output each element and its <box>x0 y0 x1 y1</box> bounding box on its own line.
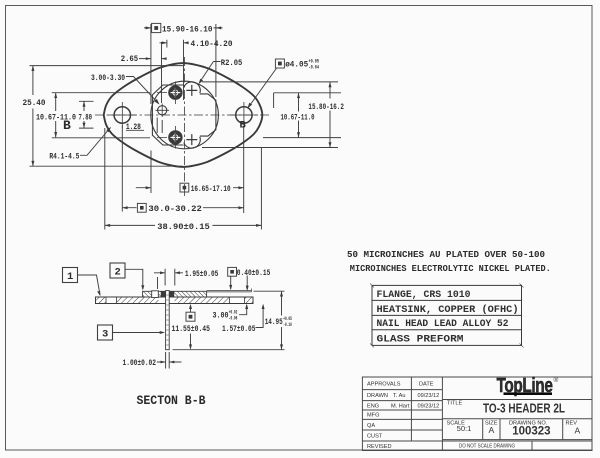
svg-text:SECTON B-B: SECTON B-B <box>137 394 206 408</box>
svg-text:1: 1 <box>67 271 73 283</box>
svg-text:14.95: 14.95 <box>265 317 283 327</box>
svg-text:1.00±0.02: 1.00±0.02 <box>123 358 157 368</box>
dim 0.40 gdt box <box>228 267 237 276</box>
svg-text:09/23/12: 09/23/12 <box>418 403 440 409</box>
svg-text:MFG: MFG <box>367 413 379 419</box>
dim 16.65-17.10 line <box>136 187 244 189</box>
svg-text:7.80: 7.80 <box>79 113 93 123</box>
svg-text:DRAWN: DRAWN <box>367 393 388 399</box>
svg-text:38.90±0.15: 38.90±0.15 <box>157 222 210 232</box>
dim 1.95 line <box>154 272 183 274</box>
dim 11.55 leader up <box>190 305 192 312</box>
dim 10.67-11.0 right ext <box>263 93 341 138</box>
svg-text:-0.10: -0.10 <box>283 321 292 328</box>
dim 16.65-17.10 ext <box>151 126 244 213</box>
svg-text:50:1: 50:1 <box>457 424 472 433</box>
flange glass gap center <box>159 296 175 304</box>
dim 15.90-16.10 gdt box <box>152 23 161 32</box>
flange hole gap right <box>230 296 245 304</box>
svg-text:R4.1-4.5: R4.1-4.5 <box>49 152 79 162</box>
dim 30.0-30.22 gdt box <box>137 203 146 212</box>
pin lower crosshair <box>157 126 175 149</box>
balloon 3 <box>98 325 113 340</box>
svg-text:R2.05: R2.05 <box>221 58 243 68</box>
svg-text:ENG: ENG <box>367 403 379 409</box>
dim 10.67-11.0 left line <box>55 93 57 138</box>
svg-text:100323: 100323 <box>512 426 550 438</box>
svg-text:NAIL HEAD LEAD ALLOY 52: NAIL HEAD LEAD ALLOY 52 <box>377 318 509 330</box>
dim 10.67-11.0 left ext <box>52 93 150 138</box>
dim 2.65 ext/line <box>139 42 167 103</box>
pin lower (filled) <box>168 130 182 144</box>
svg-text:3: 3 <box>102 329 108 341</box>
balloon 1 <box>63 268 78 283</box>
dim 25.40 ext lines <box>30 66 184 167</box>
svg-text:3.00: 3.00 <box>213 311 229 321</box>
horizontal centerline <box>95 114 271 116</box>
dim 30.0-30.22 line <box>122 207 243 209</box>
balloon 2 <box>110 263 125 278</box>
dim 1.28 tickline <box>126 118 162 134</box>
svg-text:09/23/12: 09/23/12 <box>418 393 440 399</box>
svg-text:15.80-16.2: 15.80-16.2 <box>308 102 344 112</box>
dim 11.55 gdt box <box>186 312 195 321</box>
svg-text:TITLE: TITLE <box>447 401 462 407</box>
pin upper (filled) <box>168 85 182 99</box>
dim 14.95 ext lines <box>173 291 285 350</box>
svg-text:1.95±0.05: 1.95±0.05 <box>185 269 219 279</box>
svg-text:3.00-3.30: 3.00-3.30 <box>91 73 125 83</box>
svg-text:ø4.05: ø4.05 <box>285 60 308 70</box>
section texts <box>123 268 283 368</box>
dim 0.40 leader down <box>230 276 232 289</box>
dim 10.67-11.0 right line <box>298 93 300 138</box>
svg-text:25.40: 25.40 <box>23 98 46 108</box>
svg-text:DO NOT SCALE DRAWING: DO NOT SCALE DRAWING <box>459 444 515 450</box>
dim 15.80-16.2 ext <box>202 82 338 148</box>
svg-text:2.65: 2.65 <box>121 54 139 64</box>
dim 11.55 lower arrow <box>190 334 192 349</box>
nail head dark left <box>161 291 166 297</box>
svg-text:30.0-30.22: 30.0-30.22 <box>148 204 202 214</box>
svg-text:B: B <box>63 118 71 133</box>
title block frame <box>362 377 592 451</box>
svg-text:A: A <box>575 426 581 436</box>
svg-text:4.10-4.20: 4.10-4.20 <box>191 39 233 49</box>
heatsink strip hatched <box>143 291 207 297</box>
dim 7.80 line <box>83 101 85 128</box>
right section vertical lines <box>483 419 563 451</box>
mounting hole right crosshair <box>230 102 259 128</box>
leader R4.1-4.5 <box>80 128 110 155</box>
svg-text:-0.04: -0.04 <box>309 64 320 71</box>
left column vertical lines <box>411 377 442 451</box>
dim 16.65-17.10 gdt box <box>180 183 189 192</box>
dim 25.40 line <box>32 66 34 167</box>
dim 14.95 line <box>281 291 283 350</box>
svg-text:REVISED: REVISED <box>367 444 392 450</box>
bump center cross upper <box>186 85 197 96</box>
bump upper (R2.05) <box>184 82 200 93</box>
svg-text:T. Au: T. Au <box>393 393 405 399</box>
svg-text:APPROVALS: APPROVALS <box>367 382 401 388</box>
svg-text:CUST: CUST <box>367 434 383 440</box>
top view dimension texts <box>23 24 344 232</box>
dia 4.05 gdt box <box>275 59 284 68</box>
dim 1.00 line <box>157 361 182 363</box>
dim 15.90-16.10 line <box>144 27 223 29</box>
svg-text:HEATSINK, COPPER (OFHC): HEATSINK, COPPER (OFHC) <box>377 304 519 316</box>
dim 1.57 elbow <box>256 305 264 327</box>
dim 38.90 line <box>105 224 262 226</box>
svg-text:GLASS PREFORM: GLASS PREFORM <box>377 334 464 346</box>
dim 1.95 ext ticks <box>158 269 175 289</box>
right section row lines <box>442 400 592 440</box>
pin upper crosshair <box>157 82 175 105</box>
dim 15.90-16.10 ext lines <box>151 24 216 104</box>
leader R2.05 <box>199 62 220 83</box>
dim 30.0-30.22 ext <box>105 126 262 230</box>
svg-text:B: B <box>240 120 247 132</box>
svg-text:10.67-11.0: 10.67-11.0 <box>281 113 315 123</box>
svg-text:MICROINCHES ELECTROLYTIC NICKE: MICROINCHES ELECTROLYTIC NICKEL PLATED. <box>350 263 551 274</box>
dim 7.80 ext <box>79 101 94 128</box>
svg-text:TO-3 HEADER 2L: TO-3 HEADER 2L <box>483 401 565 416</box>
svg-text:50 MICROINCHES AU PLATED OVER: 50 MICROINCHES AU PLATED OVER 50-100 <box>347 249 545 260</box>
bump center cross lower <box>186 134 197 145</box>
svg-text:15.90-16.10: 15.90-16.10 <box>162 24 213 34</box>
svg-text:16.65-17.10: 16.65-17.10 <box>191 184 231 194</box>
mounting hole left <box>114 107 130 123</box>
nail head dark right <box>169 291 174 297</box>
svg-text:FLANGE, CRS 1010: FLANGE, CRS 1010 <box>377 289 471 301</box>
svg-text:A: A <box>489 425 495 435</box>
dim 15.80-16.2 line <box>329 82 331 148</box>
left column row lines <box>362 390 592 441</box>
dim 3.00 elbow <box>239 305 247 315</box>
cap thin line <box>207 289 252 292</box>
svg-text:2: 2 <box>115 267 121 279</box>
svg-text:0.40±0.15: 0.40±0.15 <box>237 268 270 278</box>
pin in section <box>166 291 170 350</box>
materials table frame <box>372 285 522 345</box>
leader 3.00-3.30 <box>126 77 158 104</box>
TopLine logo <box>497 375 559 397</box>
mounting hole right <box>236 107 252 123</box>
bump lower <box>184 137 200 148</box>
dim 1.00 ext ticks <box>166 352 170 369</box>
vertical centerline <box>183 57 185 196</box>
svg-text:®: ® <box>554 376 559 384</box>
glass preform white <box>152 291 159 298</box>
svg-text:DATE: DATE <box>419 382 434 388</box>
svg-text:1.57±0.05: 1.57±0.05 <box>222 324 256 334</box>
inner shape (weld ring with pin bumps) <box>152 85 216 145</box>
small hole crosshair <box>156 104 170 118</box>
small hole 3.00-3.30 <box>158 106 167 115</box>
leader dia 4.05 <box>248 69 276 108</box>
svg-text:QA: QA <box>367 423 375 429</box>
section flange bar hatched <box>96 297 254 304</box>
svg-text:-0.06: -0.06 <box>229 314 238 321</box>
svg-text:M. Hart: M. Hart <box>391 403 410 409</box>
flange hole gap left <box>106 296 117 304</box>
flange outline <box>104 63 263 167</box>
svg-text:1.28: 1.28 <box>126 122 141 132</box>
dim 4.10-4.20 ext/line <box>160 40 189 100</box>
cap circle <box>151 81 219 149</box>
dim 3.00 upper arrow <box>246 276 248 290</box>
svg-text:11.55±0.45: 11.55±0.45 <box>172 324 211 334</box>
mounting hole left crosshair <box>108 102 137 128</box>
